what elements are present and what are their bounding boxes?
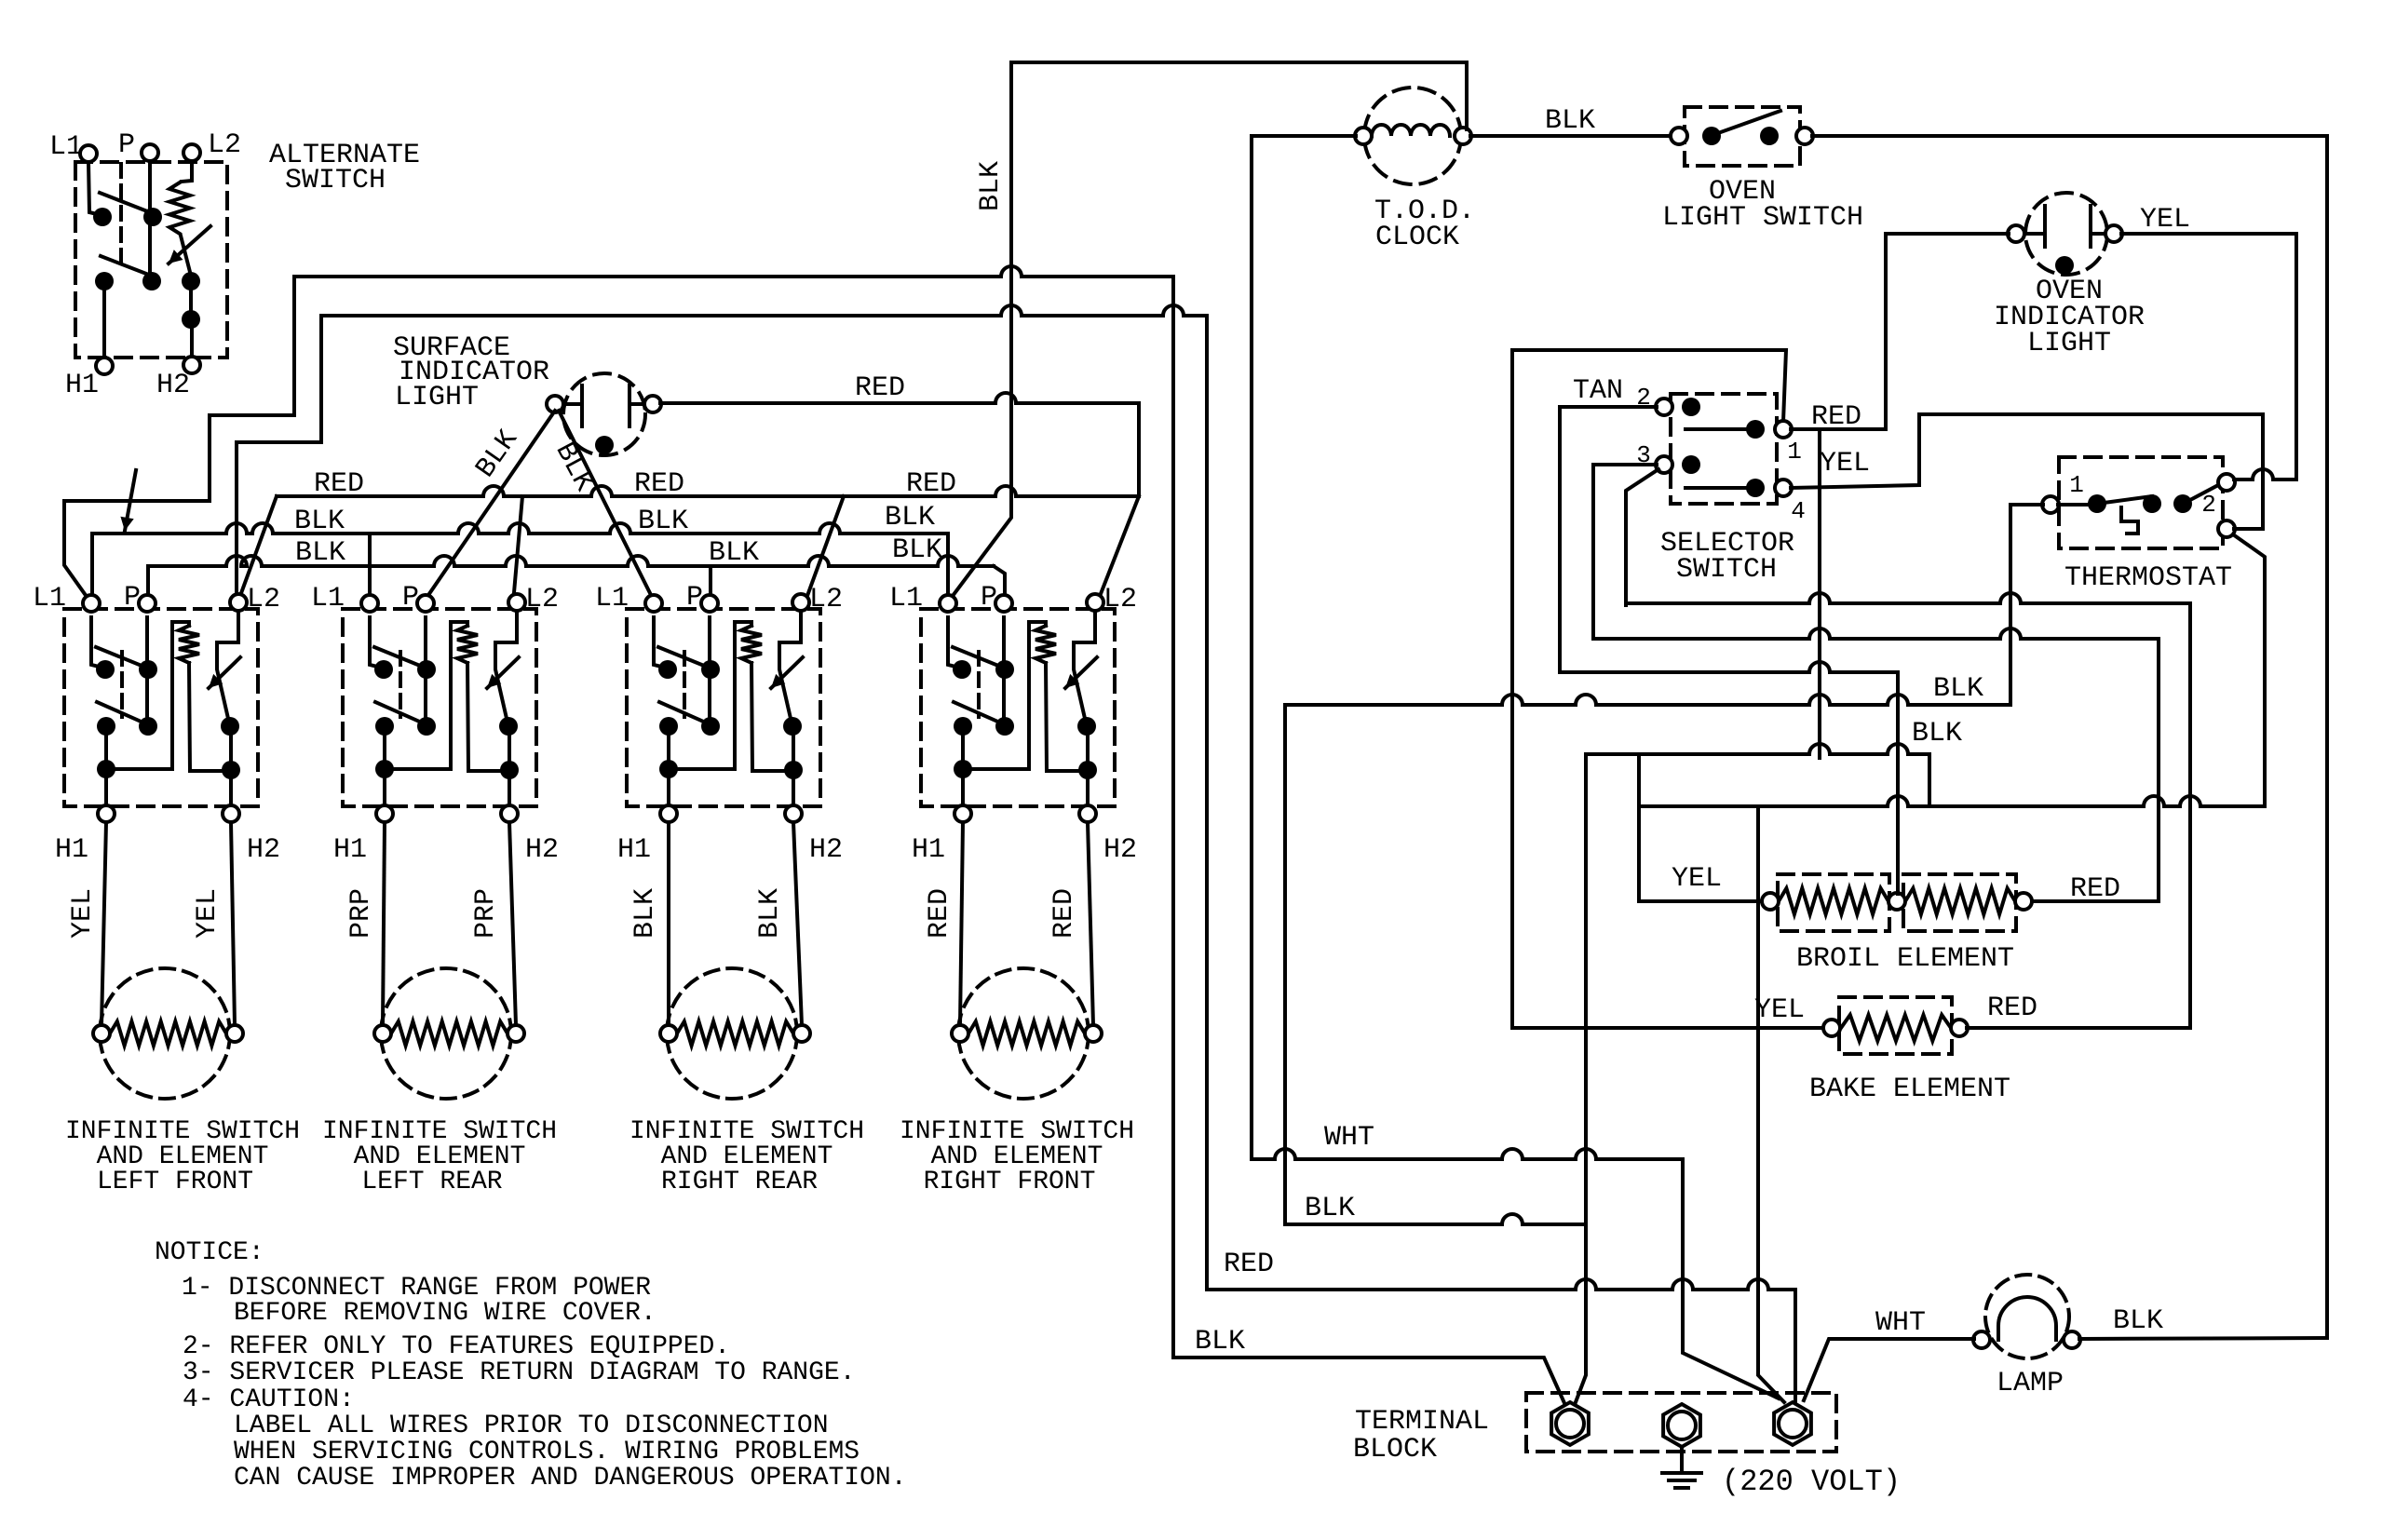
wire RED bus diagonal to L2 box4 [1097, 496, 1139, 603]
selector contact 3 [1682, 455, 1700, 474]
svg-text:YEL: YEL [2140, 204, 2190, 236]
wire line1 stair to L1 [210, 277, 294, 501]
oven indicator light electrodes [2024, 232, 2042, 236]
wire thermostat 1 to YEL net [2234, 469, 2296, 480]
wire bus2 corner to L1 box4 [946, 534, 950, 601]
svg-text:BLK: BLK [2113, 1305, 2163, 1337]
wire BLK tan-drop to hex1 [1285, 1214, 1586, 1224]
wire oven light switch to right border [1812, 136, 2327, 1338]
svg-text:YEL: YEL [1820, 448, 1870, 480]
svg-text:RED: RED [1987, 993, 2037, 1024]
wire line2 stair to L2 box1 [237, 316, 321, 599]
svg-text:LEFT FRONT: LEFT FRONT [97, 1168, 253, 1196]
alternate switch internals [88, 161, 210, 358]
bake element terminals [1823, 1020, 1840, 1036]
wire selector 4 YEL [1791, 414, 1919, 488]
svg-text:NOTICE:: NOTICE: [155, 1238, 264, 1267]
thermostat right terminals [2218, 474, 2235, 491]
T.O.D. clock dashed circle [1364, 88, 1461, 184]
svg-text:SWITCH: SWITCH [285, 165, 386, 196]
wire clock left to long vertical [1252, 136, 1356, 1159]
oven light switch dashed box [1685, 107, 1800, 166]
svg-text:L2: L2 [208, 129, 241, 161]
wire RED bus [277, 486, 1139, 496]
wire broil right [2032, 639, 2159, 901]
svg-text:P: P [124, 582, 141, 614]
svg-text:L2: L2 [1103, 584, 1137, 615]
svg-text:RED: RED [1224, 1249, 1274, 1280]
oven light switch terminals [1671, 128, 1687, 144]
element circle LEFT REAR [381, 968, 511, 1099]
infinite switch right front terminals [940, 595, 956, 612]
svg-text:BAKE ELEMENT: BAKE ELEMENT [1809, 1074, 2010, 1105]
svg-text:BLK: BLK [470, 425, 525, 484]
element circle RIGHT REAR [667, 968, 797, 1099]
infinite switch right rear internals [654, 610, 803, 814]
svg-text:H2: H2 [1103, 834, 1137, 866]
wire BLK diagonal light to L1 box3 [559, 411, 654, 601]
wire BLK lamp to border [2079, 1338, 2327, 1339]
svg-text:L2: L2 [247, 584, 280, 615]
svg-text:4- CAUTION:: 4- CAUTION: [183, 1385, 355, 1414]
wire BLK line1 to hex1 [1173, 277, 1564, 1403]
wire broil middle up [1896, 672, 1900, 894]
surface indicator light dot [595, 436, 614, 454]
svg-text:L1: L1 [33, 583, 66, 615]
lamp terminals [1973, 1331, 1990, 1348]
svg-text:1: 1 [2069, 471, 2084, 499]
svg-text:YEL: YEL [1672, 863, 1722, 895]
wire H1 lead LEFT REAR [383, 822, 385, 1025]
oven indicator light dot [2055, 256, 2074, 275]
svg-text:BLK: BLK [295, 537, 345, 569]
wire bus2 tap to L1 box2 [368, 534, 372, 601]
alternate switch terminals [80, 145, 97, 162]
svg-text:BEFORE REMOVING WIRE COVER.: BEFORE REMOVING WIRE COVER. [234, 1299, 657, 1328]
wire bake right RED [1967, 603, 2190, 1028]
svg-text:H1: H1 [65, 370, 99, 401]
surface indicator light terminals [547, 396, 563, 412]
alternate switch dashed box [75, 162, 227, 358]
ground symbol [1680, 1450, 1684, 1472]
svg-text:RED: RED [855, 372, 905, 404]
svg-text:3- SERVICER PLEASE RETURN DIAG: 3- SERVICER PLEASE RETURN DIAGRAM TO RAN… [183, 1358, 856, 1387]
infinite switch right front internals [948, 610, 1097, 814]
wire H2 lead LEFT REAR [509, 822, 516, 1025]
infinite switch box right front [921, 609, 1115, 806]
svg-text:CAN CAUSE IMPROPER AND DANGERO: CAN CAUSE IMPROPER AND DANGEROUS OPERATI… [234, 1464, 907, 1493]
wire RED line2 to hex3 [1205, 316, 1209, 1290]
infinite switch box left front [64, 609, 258, 806]
wire BLK bus lower [148, 556, 994, 566]
infinite switch box left rear [343, 609, 536, 806]
svg-text:1: 1 [1787, 438, 1802, 466]
svg-text:LABEL ALL WIRES PRIOR TO DISCO: LABEL ALL WIRES PRIOR TO DISCONNECTION [234, 1412, 829, 1440]
svg-text:L1: L1 [889, 583, 923, 615]
element circle RIGHT FRONT [958, 968, 1089, 1099]
surface indicator light electrodes [562, 402, 579, 406]
wire tap down to hex3 [1758, 806, 1784, 1402]
element RIGHT REAR terminals [660, 1025, 677, 1042]
terminal block hex nut 2 [1663, 1404, 1700, 1447]
thermostat dashed box [2059, 457, 2223, 548]
broil element dashed boxes [1778, 874, 1889, 931]
wire bus-A to L1 box1 [64, 501, 210, 601]
wire line1 top rail BLK [294, 266, 1173, 277]
svg-text:BLK: BLK [548, 438, 599, 497]
wire indicator right YEL down [2121, 234, 2296, 480]
wire thermostat 2 right jog [2234, 414, 2263, 529]
svg-text:RED: RED [906, 468, 956, 500]
svg-text:H1: H1 [617, 834, 651, 866]
infinite switch left front internals [91, 610, 240, 814]
lamp dashed circle [1985, 1275, 2069, 1358]
wire BLK bus upper [92, 523, 948, 534]
wire bus3 corner to P box1 [146, 566, 150, 601]
svg-text:BLK: BLK [709, 537, 759, 569]
svg-text:SWITCH: SWITCH [1676, 554, 1777, 586]
svg-text:BLK: BLK [1933, 673, 1983, 705]
wire bus3 corner to P box4 [994, 566, 1005, 601]
svg-text:RED: RED [634, 468, 684, 500]
svg-text:TERMINAL: TERMINAL [1355, 1406, 1489, 1438]
clock coil [1372, 125, 1450, 136]
broil element resistors [1779, 888, 1888, 914]
svg-text:LEFT REAR: LEFT REAR [361, 1168, 502, 1196]
svg-text:P: P [981, 582, 997, 614]
wire selector 1 RED to indicator [1791, 427, 1886, 431]
wire RED bus diagonal to L2 box3 [805, 496, 844, 603]
infinite switch left rear terminals [361, 595, 378, 612]
oven light switch contacts [1702, 127, 1721, 145]
svg-text:2- REFER ONLY TO FEATURES EQUI: 2- REFER ONLY TO FEATURES EQUIPPED. [183, 1332, 730, 1361]
oven indicator light terminals [2008, 225, 2024, 242]
wire WHT clock-neutral [1252, 1149, 1683, 1159]
wire RED from light to L2 box4 [660, 393, 1139, 403]
svg-text:PRP: PRP [470, 888, 502, 939]
bake element dashed box [1839, 997, 1952, 1054]
svg-text:H1: H1 [333, 834, 367, 866]
wire top border [1011, 61, 1467, 64]
bake element resistor [1841, 1015, 1951, 1041]
svg-text:H1: H1 [912, 834, 945, 866]
svg-text:BLK: BLK [638, 506, 688, 537]
svg-text:H2: H2 [247, 834, 280, 866]
wire TAN from selector 2 [1560, 407, 1657, 672]
selector contact 2 [1682, 398, 1700, 416]
svg-text:LIGHT: LIGHT [2027, 328, 2111, 359]
clock terminals [1355, 128, 1372, 144]
svg-text:BLK: BLK [754, 888, 786, 939]
svg-text:RIGHT REAR: RIGHT REAR [661, 1168, 818, 1196]
wire thermostat 2 diagonal down [2233, 534, 2265, 806]
element LEFT REAR terminals [374, 1025, 391, 1042]
svg-text:RED: RED [314, 468, 364, 500]
svg-text:THERMOSTAT: THERMOSTAT [2064, 562, 2232, 594]
svg-text:L1: L1 [49, 131, 83, 163]
svg-text:BLK: BLK [1195, 1326, 1245, 1358]
wire long horizontal to broil area [1639, 796, 2265, 806]
wire broil left [1639, 806, 1762, 901]
svg-text:LIGHT: LIGHT [395, 382, 479, 413]
wire WHT to lamp [1804, 1339, 1974, 1400]
svg-text:WHEN SERVICING CONTROLS. WIRIN: WHEN SERVICING CONTROLS. WIRING PROBLEMS [234, 1438, 860, 1466]
svg-text:BLK: BLK [294, 506, 345, 537]
svg-text:RED: RED [924, 888, 955, 939]
wire selector 3 straight [1593, 465, 1657, 639]
element circle LEFT FRONT [100, 968, 230, 1099]
svg-text:YEL: YEL [192, 888, 223, 939]
svg-text:LIGHT SWITCH: LIGHT SWITCH [1662, 202, 1863, 234]
svg-text:BLK: BLK [1912, 718, 1962, 750]
wire RED tee down [1818, 429, 1821, 758]
wire H2 lead RIGHT FRONT [1088, 822, 1093, 1025]
wire clock to oven light switch BLK [1470, 134, 1672, 138]
svg-text:P: P [118, 129, 135, 161]
svg-text:(220 VOLT): (220 VOLT) [1722, 1465, 1901, 1499]
svg-text:L1: L1 [311, 583, 345, 615]
svg-text:WHT: WHT [1324, 1122, 1374, 1154]
svg-text:BROIL ELEMENT: BROIL ELEMENT [1796, 943, 2014, 975]
svg-text:BLK: BLK [892, 534, 942, 566]
svg-text:H2: H2 [525, 834, 559, 866]
oven indicator light dashed circle [2025, 193, 2107, 275]
svg-text:BLK: BLK [629, 888, 661, 939]
svg-text:TAN: TAN [1573, 375, 1623, 407]
wire clock right to top border [1465, 62, 1469, 129]
selector switch dashed box [1671, 394, 1777, 504]
svg-text:BLOCK: BLOCK [1353, 1434, 1437, 1466]
svg-text:RIGHT FRONT: RIGHT FRONT [924, 1168, 1096, 1196]
wire H2 lead RIGHT REAR [793, 822, 802, 1025]
broil element terminals [1762, 893, 1779, 910]
wire H1 lead RIGHT REAR [667, 822, 670, 1025]
svg-text:P: P [686, 582, 703, 614]
svg-text:4: 4 [1791, 497, 1806, 525]
svg-text:LAMP: LAMP [1997, 1368, 2064, 1399]
selector switch outer rect / bake feed [1512, 350, 1823, 1028]
svg-text:BLK: BLK [975, 161, 1007, 211]
wire H1 lead LEFT FRONT [102, 822, 106, 1025]
wire H1 lead RIGHT FRONT [960, 822, 963, 1025]
svg-text:H1: H1 [55, 834, 88, 866]
wire line2 second rail [321, 305, 1207, 316]
wire bus2 corner to L1 box1 [90, 534, 94, 601]
svg-text:L1: L1 [595, 583, 629, 615]
svg-text:BLK: BLK [1305, 1193, 1355, 1224]
terminal block hex nut 3 [1774, 1402, 1811, 1445]
terminal block hex nut 1 [1551, 1402, 1589, 1445]
surface indicator light dashed circle [563, 373, 645, 455]
svg-text:PRP: PRP [345, 888, 377, 939]
wire main BLK drop x=1086 [950, 62, 1011, 600]
infinite switch left rear internals [370, 610, 519, 814]
svg-text:L2: L2 [809, 584, 843, 615]
wire bus3 tap to P box3 [709, 566, 712, 601]
svg-text:WHT: WHT [1875, 1307, 1926, 1339]
element RIGHT FRONT terminals [952, 1025, 968, 1042]
infinite switch right rear terminals [645, 595, 662, 612]
svg-text:BLK: BLK [1545, 105, 1595, 137]
selector contact 4 [1685, 486, 1748, 490]
svg-text:L2: L2 [525, 584, 559, 615]
pointer arrow below alternate switch [125, 470, 136, 531]
wire hex1 feed down [1576, 1224, 1586, 1402]
svg-text:BLK: BLK [885, 502, 935, 534]
wire BLK diagonal light to P box2 [425, 411, 555, 601]
selector contact 1 [1685, 427, 1748, 431]
svg-text:CLOCK: CLOCK [1375, 222, 1459, 253]
svg-text:YEL: YEL [67, 888, 99, 939]
element LEFT FRONT terminals [93, 1025, 110, 1042]
svg-text:RED: RED [1049, 888, 1080, 939]
svg-text:H2: H2 [809, 834, 843, 866]
terminal block dashed box [1526, 1393, 1836, 1452]
wire indicator left from selector RED [1886, 234, 2009, 426]
svg-text:YEL: YEL [1754, 994, 1805, 1026]
wire RED bus diagonal to L2 box1 [237, 496, 277, 603]
infinite switch left front terminals [83, 595, 100, 612]
wire thermostat left to broil net [2010, 505, 2043, 705]
wire H2 lead LEFT FRONT [231, 822, 235, 1025]
wire RED bus diagonal to L2 box2 [513, 496, 522, 603]
wire selector 3 diagonal [1626, 469, 1658, 605]
svg-text:P: P [402, 582, 419, 614]
lamp filament [1998, 1297, 2056, 1340]
svg-text:H2: H2 [156, 370, 190, 401]
infinite switch box right rear [627, 609, 820, 806]
